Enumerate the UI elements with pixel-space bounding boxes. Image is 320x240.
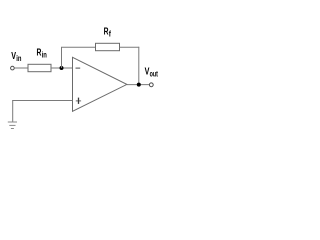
svg-text:in: in	[42, 50, 47, 59]
terminal Vin (input open circle)	[11, 66, 15, 70]
svg-text:f: f	[109, 30, 112, 39]
wire: down to ground	[12, 101, 14, 123]
wire: feedback top-left horizontal to Rf	[61, 46, 96, 48]
wire: Vin terminal to Rin	[14, 67, 28, 69]
resistor Rin	[28, 64, 51, 71]
svg-text:in: in	[16, 54, 21, 63]
node A (junction at inverting input)	[60, 66, 64, 70]
non-inverting input marker (+)	[76, 100, 81, 102]
wire: Rin to inverting input	[51, 67, 73, 69]
node B (output junction)	[137, 83, 141, 87]
wire: Rf to top-right corner	[120, 46, 140, 48]
ground	[8, 122, 17, 129]
op-amp U1	[73, 57, 127, 111]
terminal Vout (output open circle)	[149, 83, 153, 87]
wire: node A up to feedback branch	[61, 47, 63, 68]
wire: right vertical down to output node	[138, 47, 140, 85]
inverting input marker (-)	[76, 67, 81, 69]
wire: non-inverting input to left	[12, 100, 72, 102]
wire: op-amp output to Vout terminal	[127, 84, 149, 86]
resistor Rf	[96, 43, 120, 50]
svg-text:out: out	[150, 69, 159, 78]
op-amp triangle body	[73, 57, 127, 111]
